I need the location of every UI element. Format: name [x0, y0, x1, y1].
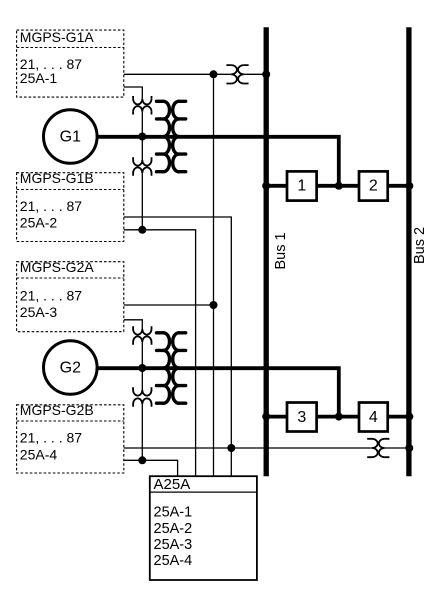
svg-text:A25A: A25A — [154, 476, 191, 493]
node G1 lead CT tap — [138, 133, 146, 141]
wire breaker 2 to bus2 — [388, 184, 410, 188]
node bus1 breaker3 — [262, 413, 270, 421]
svg-text:2: 2 — [369, 178, 378, 195]
CT G1 upper (on vertical wire) — [133, 96, 151, 115]
svg-text:Bus 1: Bus 1 — [273, 232, 289, 269]
generator G2 — [44, 341, 98, 395]
wire MGPS-G1B lower output joining CT string, down to A25A — [124, 230, 196, 476]
wire G1 lead (thick) — [97, 137, 339, 186]
svg-text:G2: G2 — [60, 359, 81, 376]
CT top (on wire to bus1) — [226, 65, 248, 83]
wire MGPS-G2A upper output to vertical wire — [124, 304, 214, 306]
CT G1 lower (on vertical wire) — [133, 157, 151, 176]
breaker 2 — [359, 171, 388, 200]
wire breaker 1 to breaker 2 — [317, 184, 359, 188]
svg-text:4: 4 — [369, 409, 378, 426]
wire MGPS-G2B lower output down to A25A — [124, 460, 178, 476]
svg-text:1: 1 — [297, 178, 306, 195]
node bottom CT wire at x231 — [227, 444, 235, 452]
wire MGPS-G1A lower output down to G1 lead — [124, 87, 143, 230]
svg-text:3: 3 — [297, 409, 306, 426]
CT bottom (between buses) — [367, 439, 389, 457]
auxiliary box A25A — [150, 476, 257, 580]
svg-text:G1: G1 — [60, 128, 81, 145]
node between breaker1 and 2 — [335, 182, 343, 190]
svg-text:25A-2: 25A-2 — [154, 521, 193, 537]
node bus2 bottom CT — [405, 444, 413, 452]
svg-text:21, . . . 87: 21, . . . 87 — [20, 287, 82, 303]
svg-text:25A-4: 25A-4 — [20, 446, 58, 462]
node between breaker3 and 4 — [335, 413, 343, 421]
svg-text:25A-4: 25A-4 — [154, 553, 193, 569]
svg-text:25A-3: 25A-3 — [20, 304, 58, 320]
bus Bus 1 — [264, 27, 269, 476]
svg-text:21, . . . 87: 21, . . . 87 — [20, 198, 82, 214]
relay box MGPS-G1B — [17, 173, 124, 242]
node G2B string joint — [138, 456, 146, 464]
svg-text:25A-3: 25A-3 — [154, 537, 193, 553]
wire breaker 3 to breaker 4 — [317, 415, 359, 419]
svg-text:25A-1: 25A-1 — [20, 70, 58, 86]
svg-text:MGPS-G2A: MGPS-G2A — [20, 259, 95, 275]
node bus2 breaker2 — [405, 182, 413, 190]
svg-text:21, . . . 87: 21, . . . 87 — [20, 429, 82, 445]
node bus2 breaker4 — [405, 413, 413, 421]
wire bus1 to breaker 3 — [266, 415, 287, 419]
CT G2 lower (on vertical wire) — [133, 387, 151, 407]
svg-text:MGPS-G2B: MGPS-G2B — [20, 402, 94, 418]
svg-text:25A-1: 25A-1 — [154, 505, 193, 521]
node on wire y74 at x213.5 — [210, 70, 218, 78]
wire breaker 4 to bus2 — [388, 415, 410, 419]
node bus1 y74 — [262, 70, 270, 78]
node G2 lead CT tap — [138, 364, 146, 372]
svg-text:MGPS-G1B: MGPS-G1B — [20, 170, 94, 186]
node G1B string joint — [138, 226, 146, 234]
breaker 4 — [359, 403, 388, 432]
CT G2 upper (on vertical wire) — [133, 326, 151, 345]
svg-text:25A-2: 25A-2 — [20, 215, 58, 231]
wire vertical from top CT junction down to A25A — [213, 74, 215, 476]
generator G1 — [44, 110, 98, 164]
node bus1 breaker1 — [262, 182, 270, 190]
wire MGPS-G2B upper output to bottom CT and bus2 — [124, 447, 409, 449]
breaker 3 — [287, 403, 317, 432]
svg-text:MGPS-G1A: MGPS-G1A — [20, 29, 95, 45]
transformer T2 (G2 step-up) — [157, 333, 186, 403]
breaker 1 — [287, 171, 317, 200]
relay box MGPS-G1A — [17, 30, 124, 97]
wire bus1 to breaker 1 — [266, 184, 287, 188]
wire MGPS-G1A upper output to top CT and bus1 — [124, 73, 266, 75]
wire MGPS-G2A lower output down to G2 lead — [124, 320, 143, 461]
svg-text:Bus 2: Bus 2 — [412, 227, 428, 264]
relay box MGPS-G2B — [17, 405, 124, 473]
bus Bus 2 — [406, 27, 411, 476]
relay box MGPS-G2A — [17, 262, 124, 332]
transformer T1 (G1 step-up) — [157, 101, 186, 171]
node G2A wire joint — [210, 301, 218, 309]
wire G2 lead (thick) — [97, 368, 339, 416]
wire MGPS-G1B upper output right then down to A25A — [124, 217, 232, 476]
